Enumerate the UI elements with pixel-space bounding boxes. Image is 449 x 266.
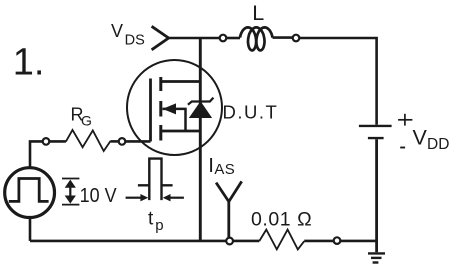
pulse generator V1 — [5, 168, 55, 218]
label - — [400, 147, 405, 149]
mosfet Q1 channel dashes — [159, 77, 162, 141]
probe arrow VDS — [152, 26, 169, 50]
wire node to ground junction — [340, 240, 376, 243]
wire node to RG — [49, 140, 66, 143]
wire drain-source vertical — [199, 38, 202, 241]
DUT enclosure circle — [127, 60, 222, 155]
amplitude bars 10V — [62, 179, 79, 205]
svg-text:10 V: 10 V — [80, 185, 118, 207]
inductor L — [240, 27, 273, 50]
wire shunt to node — [304, 240, 334, 243]
svg-text:1.: 1. — [13, 42, 45, 84]
label + — [398, 114, 412, 126]
svg-text:L: L — [252, 1, 264, 25]
resistor 0.01 ohm — [259, 230, 304, 250]
svg-text:V: V — [413, 126, 428, 150]
mosfet Q1 body arrow — [163, 103, 186, 131]
wire RG to node — [111, 140, 119, 143]
node right of inductor — [293, 35, 300, 42]
svg-text:p: p — [155, 217, 163, 234]
label VDS — [111, 21, 145, 49]
wire node to shunt — [233, 240, 259, 243]
svg-text:0.01 Ω: 0.01 Ω — [251, 209, 312, 231]
svg-text:DD: DD — [427, 136, 449, 153]
ground — [368, 253, 385, 262]
wire top-left to node — [169, 37, 220, 40]
wire gate lead — [125, 140, 150, 143]
wire battery to ground — [375, 139, 378, 252]
wire inductor to node — [273, 36, 293, 39]
mosfet Q1 source lead — [161, 130, 201, 133]
probe arrow IAS — [216, 181, 242, 238]
node right of shunt — [334, 237, 341, 244]
svg-text:AS: AS — [214, 161, 235, 178]
node RG right (gate) — [119, 138, 126, 145]
mosfet Q1 drain lead — [161, 80, 201, 83]
svg-text:I: I — [208, 154, 214, 177]
label IAS — [208, 154, 235, 178]
svg-text:V: V — [111, 21, 123, 41]
mosfet Q1 gate bar — [149, 79, 152, 142]
label RG — [71, 104, 92, 128]
pulse width arrows — [126, 194, 184, 201]
body diode D1 — [188, 98, 214, 118]
svg-text:D.U.T: D.U.T — [223, 101, 279, 122]
pulse width waveform — [138, 159, 173, 201]
amplitude double arrow — [65, 180, 76, 204]
label tp — [148, 209, 164, 234]
svg-text:G: G — [81, 113, 92, 129]
svg-text:t: t — [148, 209, 154, 230]
battery VDD plates — [359, 126, 392, 138]
label VDD — [413, 126, 449, 153]
svg-text:DS: DS — [125, 33, 145, 49]
node IAS on rail — [226, 238, 233, 245]
wire top-right and down to battery — [299, 38, 376, 125]
node RG left — [43, 138, 50, 145]
bottom rail left — [30, 240, 226, 243]
wire pulse generator top to RG — [30, 141, 43, 167]
resistor RG — [66, 130, 111, 151]
wire node to inductor — [226, 37, 240, 40]
wire pulse generator bottom to rail — [29, 217, 32, 241]
node left of inductor — [220, 35, 227, 42]
